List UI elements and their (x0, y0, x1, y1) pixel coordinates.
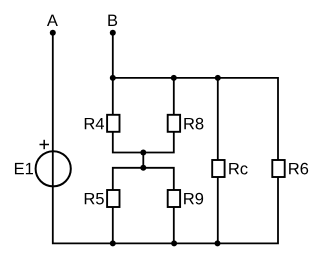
junction upper middle bar (140, 150, 146, 156)
junction Rc top bus (215, 75, 221, 81)
label node B (108, 15, 117, 26)
junction R8 top bus (171, 75, 177, 81)
label R6 (289, 163, 308, 175)
junction Rc bottom bus (215, 240, 221, 246)
label R5 (85, 193, 104, 205)
resistor R5 (107, 190, 119, 207)
junction lower middle bar (140, 165, 146, 171)
resistor R8 (168, 115, 180, 132)
wire Rc branch (217, 78, 219, 244)
label R8 (184, 118, 203, 130)
resistor R9 (168, 190, 180, 207)
polarity plus sign (40, 140, 50, 149)
label Rc (229, 163, 247, 175)
junction R9 bottom bus (171, 240, 177, 246)
resistor Rc (212, 160, 224, 177)
label R9 (184, 193, 203, 205)
label R4 (85, 118, 104, 129)
wire center link (142, 153, 144, 168)
resistor R6 (272, 160, 284, 177)
junction R5 bottom bus (110, 240, 116, 246)
label node A (47, 15, 58, 26)
resistor R4 (107, 115, 119, 132)
wire outer loop: A lead, bottom bus, R6 branch, top bus (53, 33, 278, 244)
wire B lead through R4 to upper bar and R8 branch (113, 33, 174, 153)
label E1 (15, 163, 33, 174)
junction B top bus (110, 75, 116, 81)
voltage source E1 circle (36, 151, 71, 186)
terminal dot node A (50, 30, 56, 36)
terminal dot node B (110, 30, 116, 36)
wire lower bar with R5 and R9 branches (113, 168, 174, 244)
